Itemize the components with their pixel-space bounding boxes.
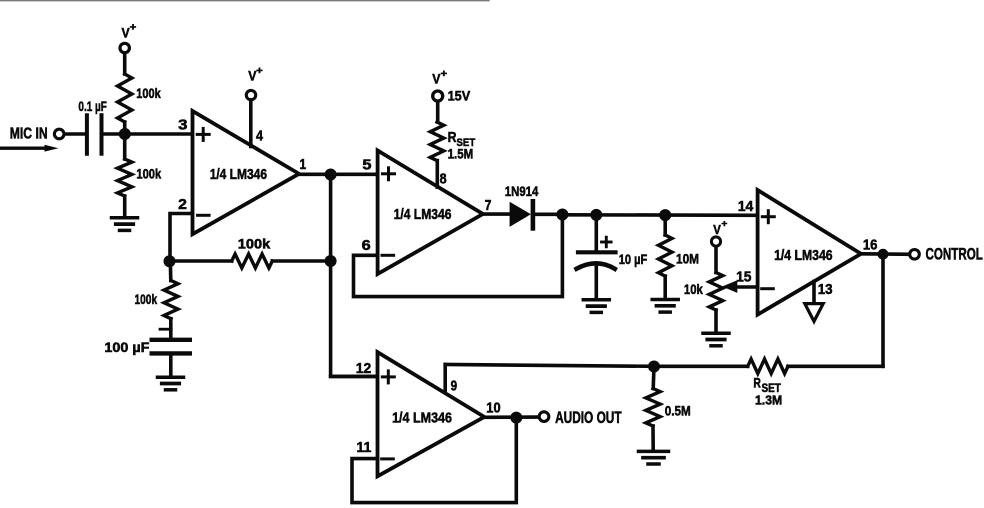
wire node I to R7 (651, 367, 655, 389)
node G junction (659, 209, 671, 221)
svg-text:10k: 10k (684, 281, 703, 297)
svg-text:2: 2 (178, 197, 187, 213)
U1d plus mark (382, 375, 394, 378)
wire node D to R3 (170, 259, 232, 263)
svg-text:1.5M: 1.5M (448, 147, 474, 162)
node H junction (878, 249, 889, 260)
wire bus node B down to pin 12 (331, 175, 378, 377)
resistor R5 10M (658, 235, 672, 276)
pin 13 down arrow (805, 304, 823, 322)
svg-text:0.1 µF: 0.1 µF (78, 98, 107, 114)
svg-text:1/4 LM346: 1/4 LM346 (394, 207, 452, 223)
op-amp U1c (758, 190, 861, 315)
node B junction (325, 169, 337, 181)
U1c minus mark (762, 287, 774, 290)
terminal V+ (pin4) (246, 90, 255, 99)
op-amp U1d (378, 352, 485, 476)
svg-text:5: 5 (362, 157, 371, 173)
wire R1 to node A (123, 122, 127, 134)
U1a plus mark (197, 133, 209, 136)
wire R9 to C2 (169, 319, 173, 340)
svg-text:11: 11 (356, 440, 371, 456)
node C junction (325, 255, 337, 267)
resistor R8 RSET 1.3M (748, 359, 788, 374)
svg-text:1/4 LM346: 1/4 LM346 (774, 248, 833, 264)
ground (R2) (112, 216, 138, 220)
node F junction (590, 209, 602, 221)
page top edge artifact (0, 0, 489, 2)
wire U1d pin11 feedback (352, 418, 516, 503)
terminal V+ (15V) (433, 91, 443, 101)
svg-text:10: 10 (486, 401, 500, 417)
wire U1a output (299, 173, 378, 177)
svg-text:1N914: 1N914 (505, 183, 539, 199)
wire R7 to ground (651, 426, 655, 450)
svg-text:R: R (753, 375, 761, 390)
U1a minus mark (198, 214, 210, 217)
node J junction (510, 412, 522, 424)
node E junction (556, 209, 568, 221)
ground (C3) (583, 298, 609, 302)
resistor R3 100k (232, 254, 273, 268)
svg-text:R: R (448, 129, 457, 146)
wire V+ to R4 (436, 102, 440, 123)
wire pin 13 (812, 281, 816, 303)
wire diode to node E (533, 213, 563, 217)
ground (R7) (639, 450, 669, 454)
svg-text:8: 8 (440, 172, 447, 188)
wire node I to pin 9 riser (445, 365, 654, 367)
wire U1d output (484, 415, 539, 419)
wire R3 to node C (272, 259, 330, 263)
resistor R1 100k (118, 74, 132, 122)
svg-text:15V: 15V (448, 88, 471, 104)
svg-text:100k: 100k (135, 291, 158, 307)
svg-text:MIC IN: MIC IN (10, 125, 48, 142)
pot wiper arrow (735, 285, 758, 288)
svg-text:0.5M: 0.5M (665, 402, 691, 418)
resistor R2 100k (118, 159, 132, 196)
svg-text:V: V (432, 71, 441, 87)
svg-text:100 µF: 100 µF (104, 339, 149, 355)
svg-text:3: 3 (178, 117, 187, 133)
wire U1b pin6 feedback (354, 215, 563, 297)
wire R8 to node I (654, 364, 748, 368)
ground (pot) (703, 331, 729, 335)
node D junction (164, 255, 176, 267)
terminal V+ (R1) (120, 43, 129, 52)
wire C2 to ground (169, 353, 173, 375)
svg-text:+: + (721, 218, 727, 229)
svg-text:AUDIO OUT: AUDIO OUT (555, 409, 622, 427)
svg-text:CONTROL: CONTROL (926, 246, 983, 264)
wire U1b output to diode (483, 212, 511, 216)
C3 plus mark (602, 241, 612, 244)
C2 plus mark (160, 328, 171, 331)
resistor R9 100k (164, 281, 178, 319)
wire pin 9 riser (443, 365, 447, 394)
wire R4 to pin 8 (435, 161, 439, 188)
resistor R4 RSET 1.5M (430, 122, 444, 161)
U1c plus mark (762, 215, 774, 218)
capacitor C2 100uF (152, 338, 190, 342)
svg-text:6: 6 (362, 238, 371, 254)
wire node D to R9 (169, 261, 173, 281)
wire C3 to ground (594, 264, 598, 299)
svg-text:1.3M: 1.3M (755, 392, 782, 407)
svg-text:14: 14 (738, 199, 754, 215)
wire node H to R8 (788, 364, 883, 368)
terminal CONTROL (910, 250, 920, 260)
capacitor C1 0.1uF (85, 115, 89, 154)
svg-text:+: + (130, 23, 137, 34)
wire pot to ground (714, 310, 718, 332)
wire R2 to ground (123, 196, 127, 216)
svg-text:9: 9 (451, 379, 458, 395)
terminal MIC IN (54, 129, 64, 139)
svg-text:100k: 100k (136, 166, 161, 182)
svg-text:1/4 LM346: 1/4 LM346 (210, 167, 267, 183)
wire node H down (881, 254, 885, 366)
wire node E to U1c pin 14 (562, 213, 757, 217)
wire MIC terminal to C1 (65, 132, 86, 136)
svg-text:100k: 100k (136, 85, 161, 101)
svg-text:V: V (713, 222, 721, 237)
potentiometer R6 10k (709, 273, 723, 311)
terminal V+ (pot) (711, 237, 720, 246)
svg-text:10 µF: 10 µF (619, 251, 648, 267)
op-amp U1a (193, 111, 300, 234)
ground (R5) (652, 298, 678, 302)
wire U1c output (861, 252, 910, 256)
svg-text:4: 4 (256, 128, 263, 144)
wire V+ to pin4 (249, 100, 253, 147)
capacitor C3 10uF (578, 250, 616, 254)
wire R5 to ground (663, 276, 667, 298)
wire V+ to pot (714, 247, 718, 273)
node I junction (648, 361, 660, 373)
U1b plus mark (383, 172, 395, 175)
op-amp U1b (378, 151, 483, 275)
svg-text:+: + (441, 69, 448, 80)
input arrow (0, 146, 46, 149)
svg-text:12: 12 (356, 361, 372, 377)
U1b minus mark (382, 254, 394, 257)
wire node G to R5 (663, 215, 667, 235)
wire C1 to U1a pin3 (104, 132, 193, 136)
svg-text:1/4 LM346: 1/4 LM346 (392, 411, 452, 427)
svg-text:100k: 100k (238, 236, 271, 252)
wire U1a pin2 stub (170, 214, 193, 262)
wire node F to C3 (594, 215, 598, 250)
terminal AUDIO OUT (539, 412, 549, 422)
resistor R7 0.5M (646, 389, 660, 427)
ground (C2) (158, 375, 184, 379)
diode D1 1N914 (510, 202, 531, 227)
wire pin 12 stub (331, 375, 378, 379)
svg-text:10M: 10M (676, 250, 699, 266)
svg-text:13: 13 (818, 282, 833, 298)
wire node A to R2 (123, 134, 127, 159)
node A junction (119, 128, 131, 140)
wire V+ to R1 (123, 54, 127, 75)
svg-text:+: + (256, 66, 263, 77)
svg-text:7: 7 (485, 198, 492, 214)
svg-text:16: 16 (863, 237, 878, 253)
svg-text:15: 15 (736, 270, 751, 286)
svg-text:1: 1 (300, 157, 307, 173)
U1d minus mark (382, 457, 394, 460)
